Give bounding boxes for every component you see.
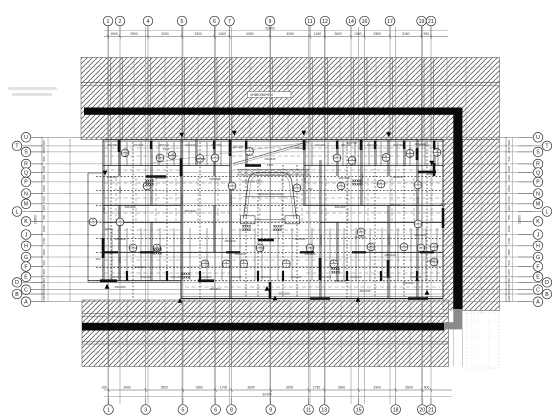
svg-text:200x400: 200x400 — [359, 289, 370, 293]
svg-text:B: B — [545, 292, 549, 298]
svg-text:P: P — [536, 180, 540, 186]
svg-text:500: 500 — [42, 260, 46, 265]
svg-text:300/700: 300/700 — [159, 143, 170, 147]
svg-text:1750: 1750 — [313, 385, 321, 389]
svg-text:250: 250 — [96, 257, 101, 261]
axis bubble C (right) — [518, 285, 543, 295]
svg-text:2900: 2900 — [130, 32, 138, 36]
svg-text:150x400: 150x400 — [201, 275, 212, 279]
svg-text:Q: Q — [536, 170, 540, 176]
axis bubble K (right) — [518, 217, 543, 227]
svg-text:300/700: 300/700 — [393, 143, 404, 147]
axis bubble 21 (top) — [426, 16, 436, 36]
svg-text:1800: 1800 — [416, 196, 420, 203]
svg-text:M: M — [536, 202, 540, 208]
svg-text:150x400: 150x400 — [321, 275, 332, 279]
secondary beam lines (density) — [104, 148, 442, 287]
svg-text:XXXX: XXXX — [181, 275, 191, 279]
svg-text:3000: 3000 — [286, 385, 294, 389]
svg-text:500: 500 — [42, 140, 46, 145]
axis bubble E (left) — [21, 272, 42, 282]
svg-text:1500: 1500 — [102, 206, 106, 213]
svg-text:3500: 3500 — [405, 385, 413, 389]
svg-text:200x400: 200x400 — [231, 275, 242, 279]
svg-text:500: 500 — [42, 156, 46, 161]
svg-text:200x400: 200x400 — [133, 143, 144, 147]
svg-text:H: H — [536, 244, 540, 250]
svg-text:E: E — [24, 275, 28, 281]
svg-text:R: R — [536, 162, 540, 168]
axis bubble Q (right) — [518, 168, 543, 178]
svg-text:7: 7 — [228, 19, 231, 25]
svg-text:11: 11 — [307, 19, 312, 25]
top dimension row — [104, 26, 448, 38]
svg-text:200x400: 200x400 — [315, 143, 326, 147]
svg-text:F: F — [24, 264, 27, 270]
svg-text:A: A — [24, 300, 28, 306]
beam lines (vertical dotted) — [111, 142, 427, 298]
svg-text:4050: 4050 — [286, 32, 294, 36]
faint print smudge — [8, 87, 57, 96]
svg-text:R: R — [24, 162, 28, 168]
axis bubble 13 (bottom) — [320, 398, 330, 414]
axis bubble B (left) — [12, 289, 42, 299]
svg-text:14: 14 — [348, 19, 354, 25]
svg-text:500: 500 — [42, 215, 46, 220]
svg-text:D: D — [15, 280, 19, 286]
svg-text:300/700: 300/700 — [341, 143, 352, 147]
axis bubble 7 (top) — [225, 16, 235, 36]
svg-text:1700: 1700 — [507, 238, 511, 245]
svg-text:300/700: 300/700 — [211, 143, 222, 147]
axis bubble G (right) — [518, 252, 543, 262]
svg-text:500: 500 — [42, 290, 46, 295]
hatch cell horizontal borders (top band) — [81, 67, 500, 128]
svg-text:1100: 1100 — [42, 295, 46, 302]
svg-text:950: 950 — [423, 32, 429, 36]
svg-text:Q: Q — [24, 170, 28, 176]
axis bubble 11 (top) — [305, 16, 315, 36]
svg-text:B: B — [15, 292, 19, 298]
tower outer wall (bottom-left edge) — [88, 281, 181, 283]
svg-text:1: 1 — [107, 19, 110, 25]
tower outer wall (right edge) — [442, 140, 444, 299]
axis bubble M (left) — [21, 199, 42, 209]
axis bubble S (left) — [21, 147, 42, 157]
svg-text:250x400: 250x400 — [209, 287, 220, 291]
tower outer wall (top edge) — [103, 140, 443, 142]
axis bubble A (right) — [518, 297, 543, 307]
svg-text:500: 500 — [507, 290, 511, 295]
svg-text:A: A — [536, 300, 540, 306]
extra shear wall ticks — [104, 141, 434, 281]
svg-text:1700: 1700 — [42, 196, 46, 203]
svg-text:6: 6 — [213, 19, 216, 25]
svg-text:2000: 2000 — [42, 146, 46, 153]
svg-text:E: E — [536, 275, 540, 281]
svg-text:1400: 1400 — [507, 175, 511, 182]
svg-text:L: L — [546, 209, 549, 215]
svg-text:3300: 3300 — [373, 385, 381, 389]
axis bubble 4 (top) — [143, 16, 153, 36]
svg-text:200x400: 200x400 — [367, 143, 378, 147]
svg-text:1000: 1000 — [427, 259, 434, 263]
svg-text:200 400: 200 400 — [233, 145, 244, 149]
svg-text:20: 20 — [419, 407, 425, 413]
axis bubble K (left) — [21, 217, 42, 227]
svg-text:200x500: 200x500 — [180, 194, 184, 205]
svg-text:2600: 2600 — [334, 32, 342, 36]
central void feature — [241, 173, 300, 224]
svg-text:200x400: 200x400 — [124, 205, 135, 209]
svg-text:4: 4 — [147, 19, 150, 25]
svg-text:200x400: 200x400 — [338, 176, 349, 180]
svg-text:1700: 1700 — [220, 385, 228, 389]
axis bubble Q (left) — [21, 168, 42, 178]
svg-text:1500: 1500 — [42, 269, 46, 276]
svg-text:200x400: 200x400 — [291, 275, 302, 279]
svg-text:U: U — [24, 135, 28, 141]
axis bubble N (right) — [518, 189, 543, 199]
bottom inner dimension texts — [111, 275, 422, 279]
svg-text:2000: 2000 — [507, 146, 511, 153]
svg-text:200x400: 200x400 — [264, 157, 275, 161]
horizontal axis grid lines — [31, 137, 532, 301]
svg-text:200x400: 200x400 — [351, 275, 362, 279]
svg-text:700: 700 — [308, 187, 313, 191]
hatch cell horizontal borders (bottom band) — [82, 314, 449, 353]
axis bubble 11 (bottom) — [304, 398, 314, 414]
axis bubble S (right) — [518, 147, 543, 157]
svg-text:5: 5 — [181, 407, 184, 413]
svg-text:1: 1 — [107, 407, 110, 413]
svg-text:1400: 1400 — [42, 175, 46, 182]
svg-text:1500: 1500 — [507, 249, 511, 256]
svg-text:3300: 3300 — [195, 32, 203, 36]
svg-text:1000: 1000 — [507, 283, 511, 290]
axis bubble H (left) — [21, 241, 42, 251]
svg-text:D: D — [545, 280, 549, 286]
svg-text:200x400: 200x400 — [334, 205, 345, 209]
axis bubble T (right) — [518, 141, 552, 151]
tower outer wall (step at axis 5) — [180, 281, 182, 299]
faint dotted slab extension (bottom-right) — [453, 313, 499, 368]
svg-text:500: 500 — [507, 215, 511, 220]
svg-text:3500: 3500 — [161, 385, 169, 389]
rotated wall annotations — [102, 174, 420, 263]
axis bubble 15 (bottom) — [354, 398, 364, 414]
axis bubble D (right) — [518, 278, 552, 288]
svg-text:1800: 1800 — [42, 185, 46, 192]
thick slab edge band (top) — [84, 108, 462, 115]
svg-text:N: N — [536, 191, 540, 197]
svg-text:200x400: 200x400 — [134, 265, 145, 269]
axis bubble 5 (bottom) — [178, 398, 188, 414]
axis bubble 12 (top) — [320, 16, 330, 36]
detail mark circles — [89, 148, 441, 269]
svg-text:1480: 1480 — [507, 205, 511, 212]
svg-text:300/700: 300/700 — [107, 143, 118, 147]
axis bubble A (left) — [21, 297, 42, 307]
axis bubble 18 (bottom) — [391, 398, 401, 414]
svg-text:200x400: 200x400 — [414, 233, 425, 237]
axis bubble J (right) — [518, 230, 543, 240]
svg-text:1480: 1480 — [42, 205, 46, 212]
svg-text:200x400: 200x400 — [294, 237, 305, 241]
svg-text:1100: 1100 — [507, 295, 511, 302]
svg-text:15: 15 — [356, 407, 362, 413]
svg-text:2000: 2000 — [118, 186, 122, 193]
svg-text:21: 21 — [428, 407, 434, 413]
unit partition walls (density) — [111, 142, 438, 280]
svg-text:J: J — [537, 232, 540, 238]
axis bubble 3 (bottom) — [141, 398, 151, 414]
interior vertical walls — [119, 140, 436, 298]
svg-text:P: P — [24, 180, 28, 186]
svg-text:500: 500 — [507, 278, 511, 283]
tower outer wall (left balcony line) — [88, 173, 103, 282]
axis bubble 9 (top) — [265, 16, 275, 36]
svg-text:200x400: 200x400 — [402, 281, 413, 285]
svg-text:1800: 1800 — [42, 225, 46, 232]
axis bubble J (left) — [21, 230, 42, 240]
svg-text:200x450: 200x450 — [114, 285, 125, 289]
axis bubble 6 (top) — [210, 16, 220, 36]
svg-text:1375: 1375 — [163, 147, 170, 151]
svg-text:500: 500 — [507, 156, 511, 161]
axis bubble F (left) — [21, 262, 42, 272]
axis bubble C (left) — [21, 285, 42, 295]
svg-text:3300: 3300 — [161, 32, 169, 36]
svg-text:C: C — [24, 288, 28, 294]
hatch cell borders (right band) — [463, 137, 500, 313]
axis bubble 19 (top) — [417, 16, 427, 36]
right dimension column — [505, 137, 522, 302]
svg-text:200x400: 200x400 — [171, 275, 182, 279]
svg-text:16: 16 — [362, 19, 368, 25]
axis bubble B (right) — [518, 289, 552, 299]
svg-text:3600: 3600 — [247, 385, 255, 389]
svg-text:U: U — [536, 135, 540, 141]
svg-text:K: K — [24, 219, 28, 225]
white label box in top hatch band — [248, 92, 292, 98]
svg-text:1500: 1500 — [42, 249, 46, 256]
svg-text:K: K — [536, 219, 540, 225]
svg-text:19: 19 — [419, 19, 425, 25]
svg-text:5: 5 — [181, 19, 184, 25]
axis bubble L (right) — [518, 207, 552, 217]
shear wall thick segments — [100, 140, 443, 299]
svg-text:N: N — [24, 191, 28, 197]
podium slab hatch band (top) — [81, 58, 500, 140]
svg-text:XHBK950*950: XHBK950*950 — [250, 93, 273, 97]
svg-text:200x400: 200x400 — [411, 275, 422, 279]
svg-text:S: S — [24, 150, 28, 156]
svg-text:S: S — [536, 150, 540, 156]
svg-text:200x500: 200x500 — [319, 234, 323, 245]
svg-text:2050: 2050 — [427, 172, 434, 176]
svg-text:2550: 2550 — [374, 32, 382, 36]
axis bubble R (right) — [518, 159, 543, 169]
svg-text:12: 12 — [322, 19, 328, 25]
svg-text:3: 3 — [144, 407, 147, 413]
svg-text:250x400: 250x400 — [184, 209, 195, 213]
inner left dimension line — [69, 140, 71, 300]
svg-text:200: 200 — [441, 202, 446, 206]
axis bubble 21 (bottom) — [426, 398, 436, 414]
interior horizontal walls — [103, 166, 443, 253]
svg-text:200x500: 200x500 — [229, 194, 233, 205]
axis bubble 5 (top) — [177, 16, 187, 36]
svg-text:H: H — [24, 244, 28, 250]
svg-text:1500: 1500 — [110, 32, 118, 36]
beam lines (horizontal dotted) — [96, 177, 443, 281]
x-braced band (center) — [237, 170, 310, 176]
svg-text:17: 17 — [387, 19, 393, 25]
svg-text:2000: 2000 — [303, 176, 307, 183]
tower outer wall (left edge) — [103, 140, 105, 281]
svg-text:F: F — [536, 264, 539, 270]
ramp diagonal (top-center room) — [233, 142, 309, 166]
axis bubble 16 (top) — [360, 16, 370, 36]
svg-text:1450: 1450 — [267, 163, 274, 167]
svg-text:4050: 4050 — [246, 32, 254, 36]
bold annotation blocks — [145, 179, 362, 280]
svg-text:150x400: 150x400 — [141, 275, 152, 279]
svg-text:19800: 19800 — [34, 215, 38, 224]
svg-text:200x400: 200x400 — [392, 175, 403, 179]
hatch cell vertical borders (bottom band) — [109, 300, 432, 367]
left dimension column — [34, 137, 49, 302]
svg-text:300x600: 300x600 — [194, 157, 205, 161]
svg-text:200x400: 200x400 — [185, 143, 196, 147]
hatch strip left of right wall band — [443, 140, 454, 311]
thick slab edge band (bottom) — [82, 323, 444, 331]
svg-text:9: 9 — [269, 407, 272, 413]
top inner dimension texts — [107, 143, 430, 147]
svg-text:XXXX: XXXX — [153, 251, 163, 255]
svg-text:32400: 32400 — [262, 392, 272, 396]
svg-text:300x600: 300x600 — [114, 237, 125, 241]
svg-text:200x400: 200x400 — [384, 253, 395, 257]
svg-text:1700: 1700 — [507, 196, 511, 203]
svg-text:3300: 3300 — [196, 385, 204, 389]
axis bubble M (right) — [518, 199, 543, 209]
axis bubble 14 (top) — [346, 16, 356, 36]
axis bubble G (left) — [21, 252, 42, 262]
axis bubble 2 (top) — [115, 16, 125, 36]
podium slab hatch band (right) — [463, 140, 500, 311]
hatch cell vertical borders (top band) — [108, 58, 466, 140]
svg-text:150x400 200x300: 150x400 200x300 — [259, 192, 282, 196]
axis bubble 17 (top) — [385, 16, 395, 36]
svg-text:8: 8 — [230, 407, 233, 413]
level marker triangles — [103, 131, 435, 303]
svg-text:2: 2 — [119, 19, 122, 25]
axis bubble F (right) — [518, 262, 543, 272]
svg-text:200x400: 200x400 — [389, 203, 400, 207]
svg-text:G: G — [24, 255, 28, 261]
svg-text:500: 500 — [424, 385, 430, 389]
vertical axis grid lines — [108, 27, 431, 405]
thick slab edge band (right vertical) — [453, 108, 462, 310]
svg-text:18: 18 — [393, 407, 399, 413]
svg-text:150x400: 150x400 — [381, 275, 392, 279]
svg-text:1450: 1450 — [218, 32, 226, 36]
svg-text:200x500: 200x500 — [360, 174, 364, 185]
axis bubble T (left) — [12, 141, 42, 151]
axis bubble H (right) — [518, 241, 543, 251]
svg-text:L: L — [16, 209, 19, 215]
svg-text:1700: 1700 — [42, 238, 46, 245]
tower outer wall (bottom-right edge) — [181, 297, 443, 299]
podium slab hatch band (bottom) — [82, 300, 449, 367]
axis bubble 9 (bottom) — [266, 398, 276, 414]
svg-text:32600: 32600 — [265, 26, 275, 30]
axis bubble N (left) — [21, 189, 42, 199]
axis bubble P (left) — [21, 177, 42, 187]
svg-text:9: 9 — [269, 19, 272, 25]
svg-text:200x500: 200x500 — [387, 234, 391, 245]
axis bubble 6 (bottom) — [211, 398, 221, 414]
axis bubble U (left) — [21, 133, 42, 143]
svg-text:XXXX: XXXX — [331, 270, 341, 274]
svg-text:1000: 1000 — [42, 283, 46, 290]
svg-text:1450: 1450 — [314, 32, 322, 36]
svg-text:3900: 3900 — [123, 385, 131, 389]
svg-text:M: M — [24, 202, 28, 208]
svg-text:J: J — [25, 232, 28, 238]
svg-text:1500: 1500 — [507, 166, 511, 173]
svg-text:G: G — [536, 255, 540, 261]
svg-text:1500: 1500 — [42, 166, 46, 173]
svg-text:150x400: 150x400 — [261, 275, 272, 279]
small size annotations — [96, 141, 446, 296]
svg-text:200x400: 200x400 — [224, 239, 235, 243]
svg-text:3300: 3300 — [338, 385, 346, 389]
svg-text:6: 6 — [214, 407, 217, 413]
axis bubble L (left) — [12, 207, 42, 217]
axis bubble D (left) — [12, 278, 42, 288]
svg-text:200x400: 200x400 — [111, 275, 122, 279]
svg-text:13: 13 — [321, 407, 327, 413]
svg-text:200x400: 200x400 — [419, 143, 430, 147]
svg-text:500: 500 — [507, 140, 511, 145]
svg-text:21: 21 — [428, 19, 434, 25]
svg-text:1500: 1500 — [507, 269, 511, 276]
ramp diagonal (top-left long) — [152, 142, 310, 163]
svg-text:200x400: 200x400 — [209, 177, 220, 181]
svg-text:300x100: 300x100 — [278, 292, 289, 296]
axis bubble E (right) — [518, 272, 543, 282]
svg-text:500: 500 — [507, 260, 511, 265]
axis bubble 8 (bottom) — [227, 398, 237, 414]
axis bubble R (left) — [21, 159, 42, 169]
bottom dimension rows — [101, 385, 452, 396]
svg-text:C: C — [536, 288, 540, 294]
svg-text:19800: 19800 — [518, 215, 522, 224]
axis bubble 1 (bottom) — [104, 398, 114, 414]
svg-text:1800: 1800 — [507, 185, 511, 192]
axis bubble U (right) — [518, 133, 543, 143]
grey slab edge corner (bottom-right) — [444, 309, 462, 329]
svg-text:2000: 2000 — [105, 227, 112, 231]
svg-text:1800: 1800 — [507, 225, 511, 232]
svg-text:3150: 3150 — [402, 32, 410, 36]
axis bubble 1 (top) — [103, 16, 113, 36]
axis bubble P (right) — [518, 177, 543, 187]
svg-text:1300: 1300 — [354, 32, 362, 36]
